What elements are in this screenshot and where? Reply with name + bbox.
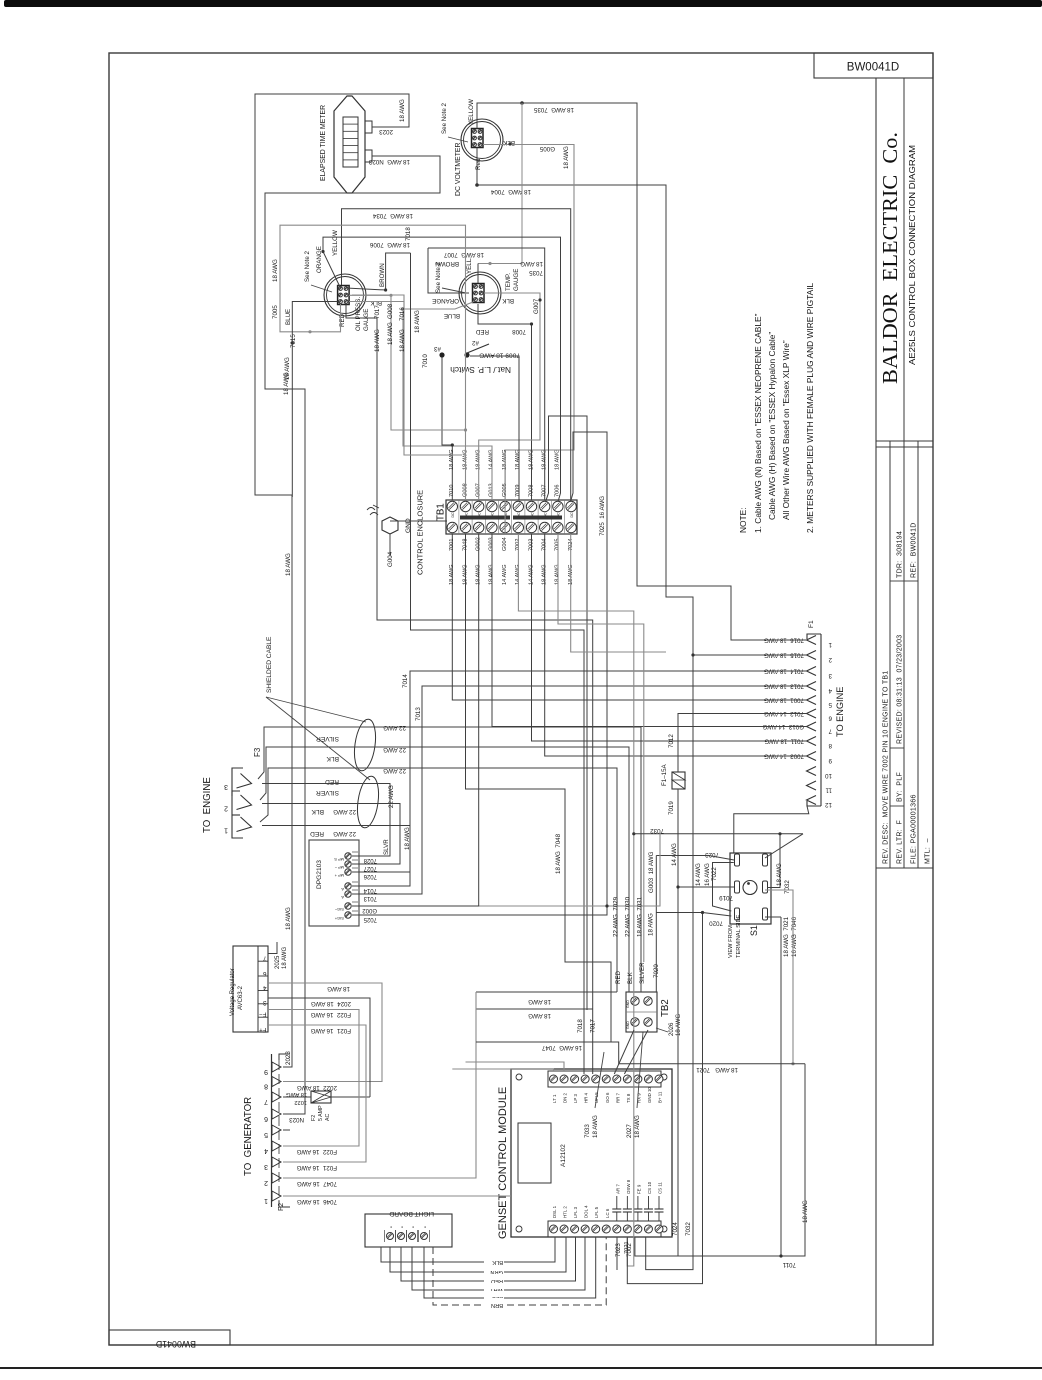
svg-text:S1: S1 [749, 925, 759, 936]
genset top terminals to upper wires [452, 1069, 553, 1071]
wire junction H at 906 [479, 905, 607, 907]
svg-text:7019: 7019 [668, 801, 675, 815]
svg-text:14 AWG: 14 AWG [502, 564, 508, 585]
svg-text:BLK: BLK [492, 1259, 503, 1265]
svg-text:TO GENERATOR: TO GENERATOR [243, 1097, 254, 1176]
svg-text:DC: DC [570, 512, 574, 518]
wire F1 pin5 7001 from TB1 [504, 450, 506, 534]
svg-text:LIGHT BOARD: LIGHT BOARD [389, 1210, 434, 1217]
svg-text:18 AWG N023: 18 AWG N023 [368, 158, 410, 165]
red pair to DPG 7026 [262, 826, 410, 873]
wire 7034 oil gauge yellow to TB1 col10 [342, 209, 571, 501]
svg-text:SIG−: SIG− [334, 907, 344, 912]
genset control module U1 [511, 1069, 672, 1237]
svg-text:1022: 1022 [294, 1099, 307, 1105]
wire 7006 oil gauge orange to TB1 col9 [323, 237, 561, 501]
svg-text:See Note 2: See Note 2 [304, 250, 311, 282]
svg-text:BROWN: BROWN [379, 263, 386, 287]
svg-text:FILE: PGA00001366: FILE: PGA00001366 [911, 794, 918, 864]
svg-text:SILVER: SILVER [316, 735, 339, 742]
svg-text:3: 3 [264, 1163, 268, 1170]
svg-text:RR 7: RR 7 [615, 1092, 620, 1103]
svg-text:22 AWG: 22 AWG [333, 830, 356, 837]
wire 2023 meter to generator pin 9 [255, 94, 409, 1067]
wire TB1 col9 bottom down rail [558, 534, 644, 962]
svg-text:1: 1 [224, 827, 228, 834]
F3 bracket [232, 768, 243, 772]
svg-text:BLUE: BLUE [444, 312, 460, 319]
svg-text:7028: 7028 [363, 857, 377, 863]
svg-text:G002: G002 [362, 907, 377, 913]
svg-text:GENSET CONTROL MODULE: GENSET CONTROL MODULE [497, 1087, 509, 1239]
wire TB1 col2 7048 long [466, 534, 612, 1042]
page bottom rule [0, 1367, 1042, 1369]
light board lamp 1 [387, 1233, 394, 1240]
svg-text:F2: F2 [311, 1115, 317, 1121]
svg-text:16 AWG 7046: 16 AWG 7046 [791, 916, 798, 957]
svg-text:●: ● [389, 1226, 393, 1228]
DPG2103 terminal 7014 [345, 883, 351, 889]
svg-text:7021: 7021 [624, 1241, 630, 1254]
wire temp yellow stub [477, 264, 479, 284]
regulator pin7 stub [268, 942, 277, 954]
svg-text:11: 11 [825, 787, 832, 794]
wire 7032 S1 horizontal [765, 834, 803, 858]
svg-text:GND 10: GND 10 [647, 1087, 652, 1103]
svg-text:7025 16 AWG: 7025 16 AWG [599, 496, 606, 536]
bottom dashed routing box [432, 1247, 434, 1305]
wire F1 pin6 7012 fuse S1 [678, 714, 806, 773]
blk pair to DPG 7027 [262, 804, 400, 865]
svg-text:7035: 7035 [529, 269, 543, 276]
oil pressure gauge M3 [324, 274, 366, 316]
wire genset term7 stub down [616, 1237, 618, 1270]
svg-text:A12102: A12102 [560, 1144, 567, 1167]
svg-text:18 AWG: 18 AWG [555, 449, 561, 470]
svg-text:2: 2 [224, 805, 228, 812]
svg-text:LC 6: LC 6 [605, 1208, 610, 1218]
svg-text:22 AWG: 22 AWG [333, 808, 356, 815]
regulator F- wire F022 to gen pin4 [268, 1010, 359, 1147]
svg-text:SILVER: SILVER [639, 962, 646, 984]
svg-text:18 AWG: 18 AWG [374, 329, 381, 352]
wire 7022 jumper top-left to bottom-left slot [713, 863, 734, 912]
svg-text:16 AWG: 16 AWG [704, 863, 711, 886]
svg-text:FE 9: FE 9 [636, 1184, 641, 1194]
svg-text:GAUGE: GAUGE [363, 309, 370, 331]
svg-text:18 AWG: 18 AWG [648, 913, 655, 936]
svg-text:G003 18 AWG: G003 18 AWG [648, 851, 655, 893]
svg-text:Voltage Regulator: Voltage Regulator [230, 968, 236, 1016]
svg-text:7032: 7032 [650, 827, 664, 834]
wire light board BRN [433, 1237, 606, 1305]
svg-text:5: 5 [828, 701, 832, 708]
svg-text:HTL 2: HTL 2 [563, 1206, 568, 1218]
svg-text:MP S: MP S [334, 857, 344, 862]
svg-text:7033: 7033 [584, 1124, 591, 1138]
TB2 bottom screws to genset terms 7 8 [614, 1030, 634, 1074]
regulator F+ wire F021 to gen pin3 [268, 1025, 366, 1162]
svg-text:BLK: BLK [369, 299, 382, 306]
wire 7008 temp red to TB1 col7 [478, 304, 532, 500]
wire F1 pin9 7003 from TB1 [545, 534, 806, 756]
wire 7011 long horizontal [635, 1064, 805, 1256]
svg-text:GAUGE: GAUGE [513, 269, 520, 291]
temperature gauge M4 [459, 272, 501, 314]
DPG2103 terminal 7028 [345, 853, 351, 859]
gen pin5 stub [283, 1129, 290, 1131]
svg-text:RED: RED [310, 830, 324, 837]
svg-text:7047 16 AWG: 7047 16 AWG [297, 1180, 337, 1187]
svg-text:1. Cable AWG (N) Based on ”ESS: 1. Cable AWG (N) Based on ”ESSEX NEOPREN… [753, 313, 763, 533]
svg-text:DOL 4: DOL 4 [584, 1205, 589, 1218]
svg-text:4: 4 [264, 1147, 268, 1154]
svg-text:TO ENGINE: TO ENGINE [835, 687, 845, 737]
wire 7016 oil gauge to cascade [352, 295, 462, 455]
svg-text:7027: 7027 [363, 865, 377, 871]
svg-text:F1–15A: F1–15A [661, 763, 668, 786]
svg-text:CONTROL ENCLOSURE: CONTROL ENCLOSURE [416, 490, 425, 575]
svg-text:2023: 2023 [285, 1051, 292, 1065]
svg-text:18 AWG 7048: 18 AWG 7048 [555, 833, 562, 874]
svg-text:2: 2 [828, 656, 832, 663]
svg-text:18 AWG: 18 AWG [676, 1014, 682, 1036]
DPG2103 terminal G002 [345, 903, 351, 909]
wire S1 bottom right slot stub [765, 916, 781, 918]
svg-text:Red: Red [475, 158, 482, 170]
svg-text:DPG2103: DPG2103 [316, 860, 323, 889]
svg-text:ORANGE: ORANGE [432, 297, 459, 304]
wire 7024 rail fuse leg to genset term9 [635, 887, 678, 1256]
svg-text:18 AWG: 18 AWG [528, 998, 551, 1005]
svg-text:7018: 7018 [577, 1019, 584, 1033]
wire S1 7020 to TB2 via left rail [656, 913, 731, 917]
svg-text:F022 16 AWG: F022 16 AWG [296, 1148, 337, 1155]
svg-text:G005: G005 [539, 145, 555, 152]
light board lamp 3 [409, 1233, 416, 1240]
svg-text:18 AWG: 18 AWG [528, 1012, 551, 1019]
wire light board BLK [381, 1237, 555, 1262]
silver 22AWG to TB2 [258, 727, 641, 992]
svg-text:LFL 5: LFL 5 [594, 1206, 599, 1218]
svg-text:YELLOW: YELLOW [468, 99, 475, 125]
title block horizontal borders [876, 440, 933, 442]
svg-text:4: 4 [263, 984, 267, 991]
svg-text:2025: 2025 [275, 955, 281, 969]
svg-text:14 AWG: 14 AWG [695, 863, 702, 886]
svg-text:F1: F1 [808, 620, 815, 628]
svg-text:All Other Wire AWG Based on ”E: All Other Wire AWG Based on ”Essex XLP W… [781, 340, 791, 520]
light board wire labels [484, 1255, 504, 1264]
shield ellipse 1 [351, 718, 378, 772]
title block revision column lines [889, 441, 891, 868]
page top black bar [4, 0, 1042, 7]
svg-text:TB1: TB1 [436, 503, 447, 521]
svg-text:7015: 7015 [290, 334, 297, 348]
svg-text:See Note 2: See Note 2 [441, 102, 448, 134]
svg-text:18 AWG: 18 AWG [272, 259, 279, 282]
svg-text:TB2: TB2 [660, 999, 671, 1017]
wire N023 meter to generator pin 6 [265, 156, 440, 1114]
svg-text:A: A [341, 887, 344, 892]
light board lamp 4 [421, 1233, 428, 1240]
svg-text:2: 2 [264, 1179, 268, 1186]
capacitor at genset pin CS 10 [647, 1212, 649, 1221]
svg-text:DN 2: DN 2 [563, 1092, 568, 1103]
svg-text:F−: F− [259, 1011, 267, 1018]
svg-text:7032: 7032 [784, 880, 791, 894]
fuse F2 5 AMP AC [311, 1091, 331, 1103]
silver pair to DPG 7028 [262, 784, 390, 857]
F1 pin 2 [807, 651, 817, 660]
svg-text:7014: 7014 [402, 674, 409, 688]
svg-text:BLUE: BLUE [285, 309, 292, 325]
svg-text:18 AWG: 18 AWG [399, 329, 406, 352]
svg-text:7032: 7032 [685, 1222, 692, 1236]
F1 pin 5 [807, 696, 817, 705]
svg-text:F021 16 AWG: F021 16 AWG [310, 1027, 351, 1034]
svg-text:1: 1 [828, 641, 832, 648]
svg-text:SHIELDED CABLE: SHIELDED CABLE [266, 636, 273, 693]
svg-text:●: ● [411, 1226, 415, 1228]
wire 7015 oil gauge blue down [292, 302, 337, 498]
svg-text:5: 5 [264, 1131, 268, 1138]
svg-text:ELAPSED TIME METER: ELAPSED TIME METER [320, 105, 327, 181]
DPG2103 terminal 7026 [345, 869, 351, 875]
title block left border [875, 78, 877, 1345]
svg-text:2023: 2023 [379, 128, 393, 135]
svg-text:3: 3 [224, 783, 228, 790]
wire F1 bracket to S1 box top [734, 806, 809, 853]
svg-text:SLVR: SLVR [383, 839, 390, 855]
svg-text:18 AWG: 18 AWG [286, 1091, 307, 1097]
svg-text:9: 9 [828, 757, 832, 764]
svg-text:DSL 1: DSL 1 [552, 1205, 557, 1218]
wire 7032 rail to genset term10 [646, 655, 693, 1270]
svg-text:BW0041D: BW0041D [156, 1339, 196, 1349]
svg-text:B+ 11: B+ 11 [658, 1091, 663, 1103]
svg-text:18 AWG: 18 AWG [414, 310, 421, 333]
svg-text:GO 6: GO 6 [605, 1092, 610, 1103]
title cell dividers [890, 805, 904, 807]
svg-text:7: 7 [828, 728, 832, 735]
svg-text:TEMP.: TEMP. [505, 273, 512, 291]
svg-text:NOTE:: NOTE: [738, 507, 748, 533]
svg-text:6: 6 [264, 1115, 268, 1122]
switch S1 [730, 853, 771, 924]
svg-text:2027: 2027 [626, 1124, 633, 1138]
wire oil brown to 7018 [346, 253, 411, 290]
svg-text:YELL.: YELL. [466, 257, 473, 274]
capacitor at genset pin CS 11 [658, 1212, 660, 1221]
svg-text:TERMINAL SIDE: TERMINAL SIDE [736, 914, 742, 958]
F1 pin 12 [807, 796, 817, 805]
capacitor at genset pin OSW 8 [626, 1212, 628, 1221]
svg-text:18 AWG 7006: 18 AWG 7006 [369, 241, 410, 248]
svg-text:HR 4: HR 4 [584, 1092, 589, 1103]
svg-text:●: ● [423, 1226, 427, 1228]
svg-text:7005: 7005 [272, 305, 279, 319]
svg-text:18 AWG 7031: 18 AWG 7031 [637, 896, 644, 937]
F1 pin 3 [807, 667, 817, 676]
wire TB1 col6 7002 down rail to genset term8 [518, 534, 633, 1266]
F1 pin 7 [807, 722, 817, 731]
svg-text:7010: 7010 [422, 354, 429, 368]
svg-text:DC VOLTMETER: DC VOLTMETER [455, 143, 462, 196]
svg-text:18 AWG: 18 AWG [515, 449, 521, 470]
regulator pin4 wire 2022 to gen pin8 [268, 983, 382, 1082]
svg-text:7013: 7013 [415, 707, 422, 721]
wire TB1 col3 G002 to DPG [352, 534, 479, 906]
svg-text:7008: 7008 [512, 328, 526, 335]
wire 7004 voltmeter to F1 pin 2 [477, 148, 806, 656]
svg-text:SIG+: SIG+ [334, 916, 344, 921]
wire 7032 center-right slot leg [767, 834, 780, 888]
svg-text:BALDOR ELECTRIC Co.: BALDOR ELECTRIC Co. [878, 132, 902, 384]
svg-text:7018: 7018 [405, 227, 412, 241]
svg-text:22 AWG: 22 AWG [388, 785, 395, 808]
svg-text:18 AWG: 18 AWG [285, 553, 292, 576]
svg-text:MP −: MP − [334, 865, 344, 870]
svg-text:7014: 7014 [363, 887, 377, 893]
svg-text:CS 11: CS 11 [658, 1182, 663, 1194]
wire G008 oil gauge blk to TB1 col2 [349, 295, 466, 500]
wire F1 pin4 7013 from DPG [352, 686, 806, 894]
Nat./L.P. switch S2 [439, 352, 444, 357]
svg-text:AR 7: AR 7 [615, 1184, 620, 1194]
svg-text:BRN: BRN [491, 1302, 503, 1308]
svg-text:7: 7 [264, 1098, 268, 1105]
svg-text:●: ● [400, 1226, 404, 1228]
svg-text:22 AWG 7030: 22 AWG 7030 [625, 896, 632, 937]
svg-text:Nat./ L.P. Switch: Nat./ L.P. Switch [450, 365, 511, 375]
svg-text:16 AWG 7047: 16 AWG 7047 [541, 1044, 582, 1051]
svg-text:6: 6 [828, 715, 832, 722]
svg-text:2024 18 AWG: 2024 18 AWG [311, 1000, 351, 1007]
ground GND control enclosure [382, 517, 398, 534]
svg-text:18 AWG: 18 AWG [592, 1115, 599, 1138]
wire temp blue to TB1 col4 G013 [403, 302, 492, 500]
wire 7035 voltmeter to F1 pin 1 [477, 103, 806, 640]
svg-text:7025: 7025 [363, 916, 377, 922]
svg-text:AE25LS CONTROL BOX CONNECTION: AE25LS CONTROL BOX CONNECTION DIAGRAM [907, 145, 917, 365]
TB1 jumper bars [460, 516, 510, 520]
svg-text:GND: GND [626, 1021, 630, 1029]
svg-text:18 AWG: 18 AWG [285, 907, 292, 930]
svg-text:2022 18 AWG: 2022 18 AWG [297, 1084, 337, 1091]
svg-text:REV. DESC: MOVE WIRE 7002 PIN: REV. DESC: MOVE WIRE 7002 PIN 10 ENGINE … [883, 670, 890, 864]
svg-text:18 AWG: 18 AWG [399, 99, 406, 122]
svg-text:7026: 7026 [363, 873, 377, 879]
svg-text:F3: F3 [253, 747, 262, 757]
wire 7007 temp gauge box [428, 248, 545, 500]
svg-text:18 AWG 7007: 18 AWG 7007 [443, 251, 484, 258]
svg-text:7009: 7009 [515, 485, 521, 497]
genset module top terminal strip [548, 1071, 661, 1087]
wire 7010 switch to TB1 col1 [442, 357, 452, 500]
terminal block TB1 [446, 500, 577, 534]
F2 bracket [271, 1054, 273, 1207]
F1 pin 9 [807, 752, 817, 761]
svg-text:LP 3: LP 3 [573, 1093, 578, 1103]
wire 7005 oil red loop to TB1 col2 [280, 225, 466, 430]
svg-text:18 AWG: 18 AWG [634, 1115, 641, 1138]
svg-text:18 AWG 7035: 18 AWG 7035 [533, 106, 574, 113]
drawing border frame [109, 53, 933, 1345]
light board U4 [365, 1214, 452, 1247]
svg-text:18 AWG: 18 AWG [282, 947, 288, 969]
svg-text:#2: #2 [472, 339, 479, 346]
svg-text:7017: 7017 [374, 305, 381, 319]
svg-text:7: 7 [263, 955, 267, 962]
svg-text:7024: 7024 [672, 1222, 679, 1236]
title block divider BALDOR/AE25LS [903, 78, 905, 868]
gen pin2 wire 7047 [283, 992, 476, 1178]
svg-text:7020: 7020 [709, 920, 723, 927]
svg-text:3: 3 [263, 999, 267, 1006]
svg-text:SILVER: SILVER [316, 789, 339, 796]
wire F1 pin7 G013 from TB1 [492, 534, 806, 727]
wire rail to genset term8 [627, 913, 702, 1284]
DPG2103 terminal 7025 [345, 912, 351, 918]
blk 22AWG to TB2 [260, 747, 629, 992]
svg-text:2026: 2026 [669, 1022, 675, 1036]
F1 pin 6 [807, 709, 817, 718]
svg-text:7019: 7019 [719, 894, 733, 901]
svg-text:14 AWG: 14 AWG [671, 843, 678, 866]
drawing number box top-right BW0041D [814, 53, 933, 78]
voltage regulator AVC63-2 U3 [233, 946, 268, 1032]
svg-text:LFL 3: LFL 3 [573, 1206, 578, 1218]
svg-text:18 AWG 7034: 18 AWG 7034 [372, 212, 413, 219]
svg-text:REVISED: 08:31:13 07/23/2003: REVISED: 08:31:13 07/23/2003 [897, 635, 904, 745]
svg-text:BLK: BLK [627, 971, 634, 984]
svg-text:N023: N023 [289, 1116, 304, 1123]
F1 pin 8 [807, 737, 817, 746]
capacitor at genset pin AR 7 [616, 1212, 618, 1221]
F1 pin 4 [807, 682, 817, 691]
svg-text:1: 1 [264, 1197, 268, 1204]
svg-text:18 AWG: 18 AWG [327, 985, 350, 992]
wire G003 rail [607, 830, 660, 906]
regulator pin3 wire 2024 [268, 998, 370, 1097]
wire 7016 oil gauge joins G013 [349, 302, 404, 310]
svg-text:7016: 7016 [399, 307, 406, 321]
DPG2103 module U2 [309, 840, 359, 926]
svg-text:TO ENGINE: TO ENGINE [202, 777, 213, 833]
svg-text:DC: DC [451, 512, 455, 518]
svg-text:TX 8: TX 8 [626, 1093, 631, 1103]
svg-text:CS 10: CS 10 [647, 1181, 652, 1194]
svg-text:OSW 8: OSW 8 [626, 1179, 631, 1194]
DPG2103 terminal 7013 [345, 891, 351, 897]
elapsed time meter M1 [334, 96, 365, 193]
wire S1 right mid 7046 down [765, 890, 793, 1064]
wire G007 temp blk down [479, 293, 540, 500]
wire 7018 to TB2 area [411, 253, 585, 1074]
svg-text:18 AWG: 18 AWG [283, 372, 290, 395]
svg-text:#3: #3 [434, 345, 441, 352]
svg-text:2. METERS SUPPLIED WITH FEMALE: 2. METERS SUPPLIED WITH FEMALE PLUG AND … [805, 282, 815, 533]
wire 7025 TB1 to DPG [352, 432, 607, 915]
svg-text:18 AWG: 18 AWG [563, 146, 570, 169]
svg-text:BW0041D: BW0041D [847, 62, 899, 74]
svg-text:18 AWG: 18 AWG [520, 260, 543, 267]
wire 7021 riser from S1 [780, 917, 782, 1256]
svg-text:AVC63-2: AVC63-2 [238, 985, 244, 1010]
svg-text:F022 16 AWG: F022 16 AWG [310, 1011, 351, 1018]
wire 7017 oil gauge long to TB2 area [346, 304, 593, 1074]
